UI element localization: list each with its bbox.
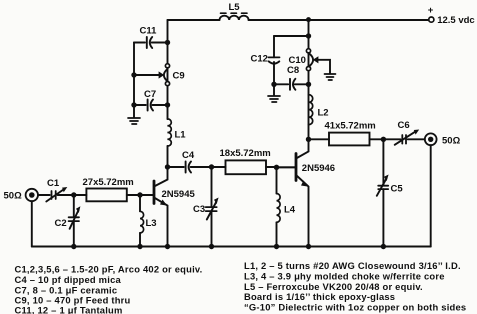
node C11-right junction <box>165 40 170 45</box>
svg-text:“G-10” Dielectric with 1oz cop: “G-10” Dielectric with 1oz copper on bot… <box>244 302 466 313</box>
terminal 50 ohm input <box>4 189 39 202</box>
capacitor C6 variable <box>395 120 420 145</box>
wire left bias branch vertical <box>167 20 169 167</box>
node C5 top junction <box>381 137 386 142</box>
stripline 41x5.72mm <box>325 121 376 146</box>
wire output shield down <box>430 145 432 246</box>
svg-text:Board is 1/16’’ thick epoxy-gl: Board is 1/16’’ thick epoxy-glass <box>244 291 395 302</box>
svg-text:L2: L2 <box>318 108 329 119</box>
transistor Q2 2N5946 <box>277 139 336 246</box>
wire output line <box>309 138 425 140</box>
stripline 27x5.72mm <box>83 177 134 201</box>
svg-text:27x5.72mm: 27x5.72mm <box>83 177 134 188</box>
svg-text:C5: C5 <box>391 184 404 195</box>
svg-text:12.5 vdc: 12.5 vdc <box>437 15 475 26</box>
svg-text:C2: C2 <box>55 218 67 229</box>
svg-text:C1: C1 <box>47 178 60 189</box>
terminal 12.5 vdc <box>428 5 475 26</box>
node L4 top junction <box>274 165 279 170</box>
svg-text:L5: L5 <box>229 2 241 13</box>
node C8 left junction <box>271 82 276 87</box>
capacitor C3 variable <box>193 167 219 247</box>
ground below C12 <box>268 84 280 102</box>
svg-text:C12: C12 <box>251 54 268 65</box>
svg-text:L3: L3 <box>146 218 157 229</box>
svg-text:L1, 2 – 5 turns #20 AWG Closew: L1, 2 – 5 turns #20 AWG Closewound 3/16’… <box>244 260 461 271</box>
ground below C7 <box>128 105 140 124</box>
terminal 50 ohm output <box>425 133 461 146</box>
wire interstage line <box>168 166 297 168</box>
capacitor C9 feed-thru <box>134 64 185 86</box>
svg-text:C8: C8 <box>287 65 299 76</box>
node C8 right junction <box>306 82 311 87</box>
svg-text:C9: C9 <box>173 71 185 82</box>
wire C12 branch top <box>274 35 309 37</box>
transistor Q1 2N5945 <box>140 167 195 247</box>
wire input line <box>38 194 140 196</box>
caption right column <box>244 260 466 312</box>
svg-text:50Ω: 50Ω <box>4 191 23 202</box>
node interstage junction <box>165 164 170 169</box>
svg-text:+: + <box>428 5 434 16</box>
capacitor C5 variable <box>377 139 404 246</box>
node base/L3 junction <box>137 192 142 197</box>
svg-text:L4: L4 <box>284 205 296 216</box>
capacitor C11 <box>134 26 168 49</box>
capacitor C7 <box>134 89 168 111</box>
node rail junction <box>306 17 311 22</box>
svg-text:C11: C11 <box>140 26 158 37</box>
capacitor C2 variable <box>55 195 81 247</box>
stripline 18x5.72mm <box>220 148 271 174</box>
svg-text:L1: L1 <box>175 130 187 141</box>
node C12 branch junction <box>306 33 311 38</box>
wire input shield down <box>31 201 33 246</box>
capacitor C1 variable <box>46 178 67 202</box>
capacitor C8 <box>274 65 309 90</box>
svg-text:C4: C4 <box>182 150 195 161</box>
node C7 left junction <box>131 102 136 107</box>
node C7 right junction <box>165 102 170 107</box>
node C9 left junction <box>131 72 136 77</box>
svg-text:C6: C6 <box>398 120 410 131</box>
capacitor C10 feed-thru <box>289 49 331 74</box>
svg-text:2N5946: 2N5946 <box>302 163 335 174</box>
node rail dots <box>71 244 386 249</box>
svg-text:C1,2,3,5,6 – 1.5-20 pF, Arco 4: C1,2,3,5,6 – 1.5-20 pF, Arco 402 or equi… <box>15 264 203 275</box>
svg-text:C4 – 10 pf dipped mica: C4 – 10 pf dipped mica <box>15 274 122 285</box>
inductor L1 <box>168 119 187 146</box>
inductor L5 <box>220 2 249 20</box>
svg-text:C3: C3 <box>193 204 205 215</box>
svg-text:C7: C7 <box>144 89 156 100</box>
inductor L3 <box>140 195 157 247</box>
capacitor C4 <box>182 150 195 173</box>
node C1/C2 junction <box>71 192 76 197</box>
node C3 top junction <box>209 164 214 169</box>
inductor L4 <box>277 167 296 246</box>
wire VCC rail <box>168 19 429 21</box>
svg-text:2N5945: 2N5945 <box>162 189 196 200</box>
wire ground rail <box>32 246 431 248</box>
caption left column <box>15 264 203 314</box>
svg-text:41x5.72mm: 41x5.72mm <box>325 121 376 132</box>
wire C11/C7 left vertical <box>133 43 135 106</box>
node collector junction <box>306 137 311 142</box>
wire C10 vertical <box>308 20 310 139</box>
svg-text:18x5.72mm: 18x5.72mm <box>220 148 271 159</box>
svg-text:C11, 12 – 1 μf Tantalum: C11, 12 – 1 μf Tantalum <box>15 304 123 314</box>
ground right of C10 <box>325 74 336 80</box>
svg-text:50Ω: 50Ω <box>442 136 461 147</box>
inductor L2 <box>309 95 329 125</box>
capacitor C12 <box>251 36 280 84</box>
